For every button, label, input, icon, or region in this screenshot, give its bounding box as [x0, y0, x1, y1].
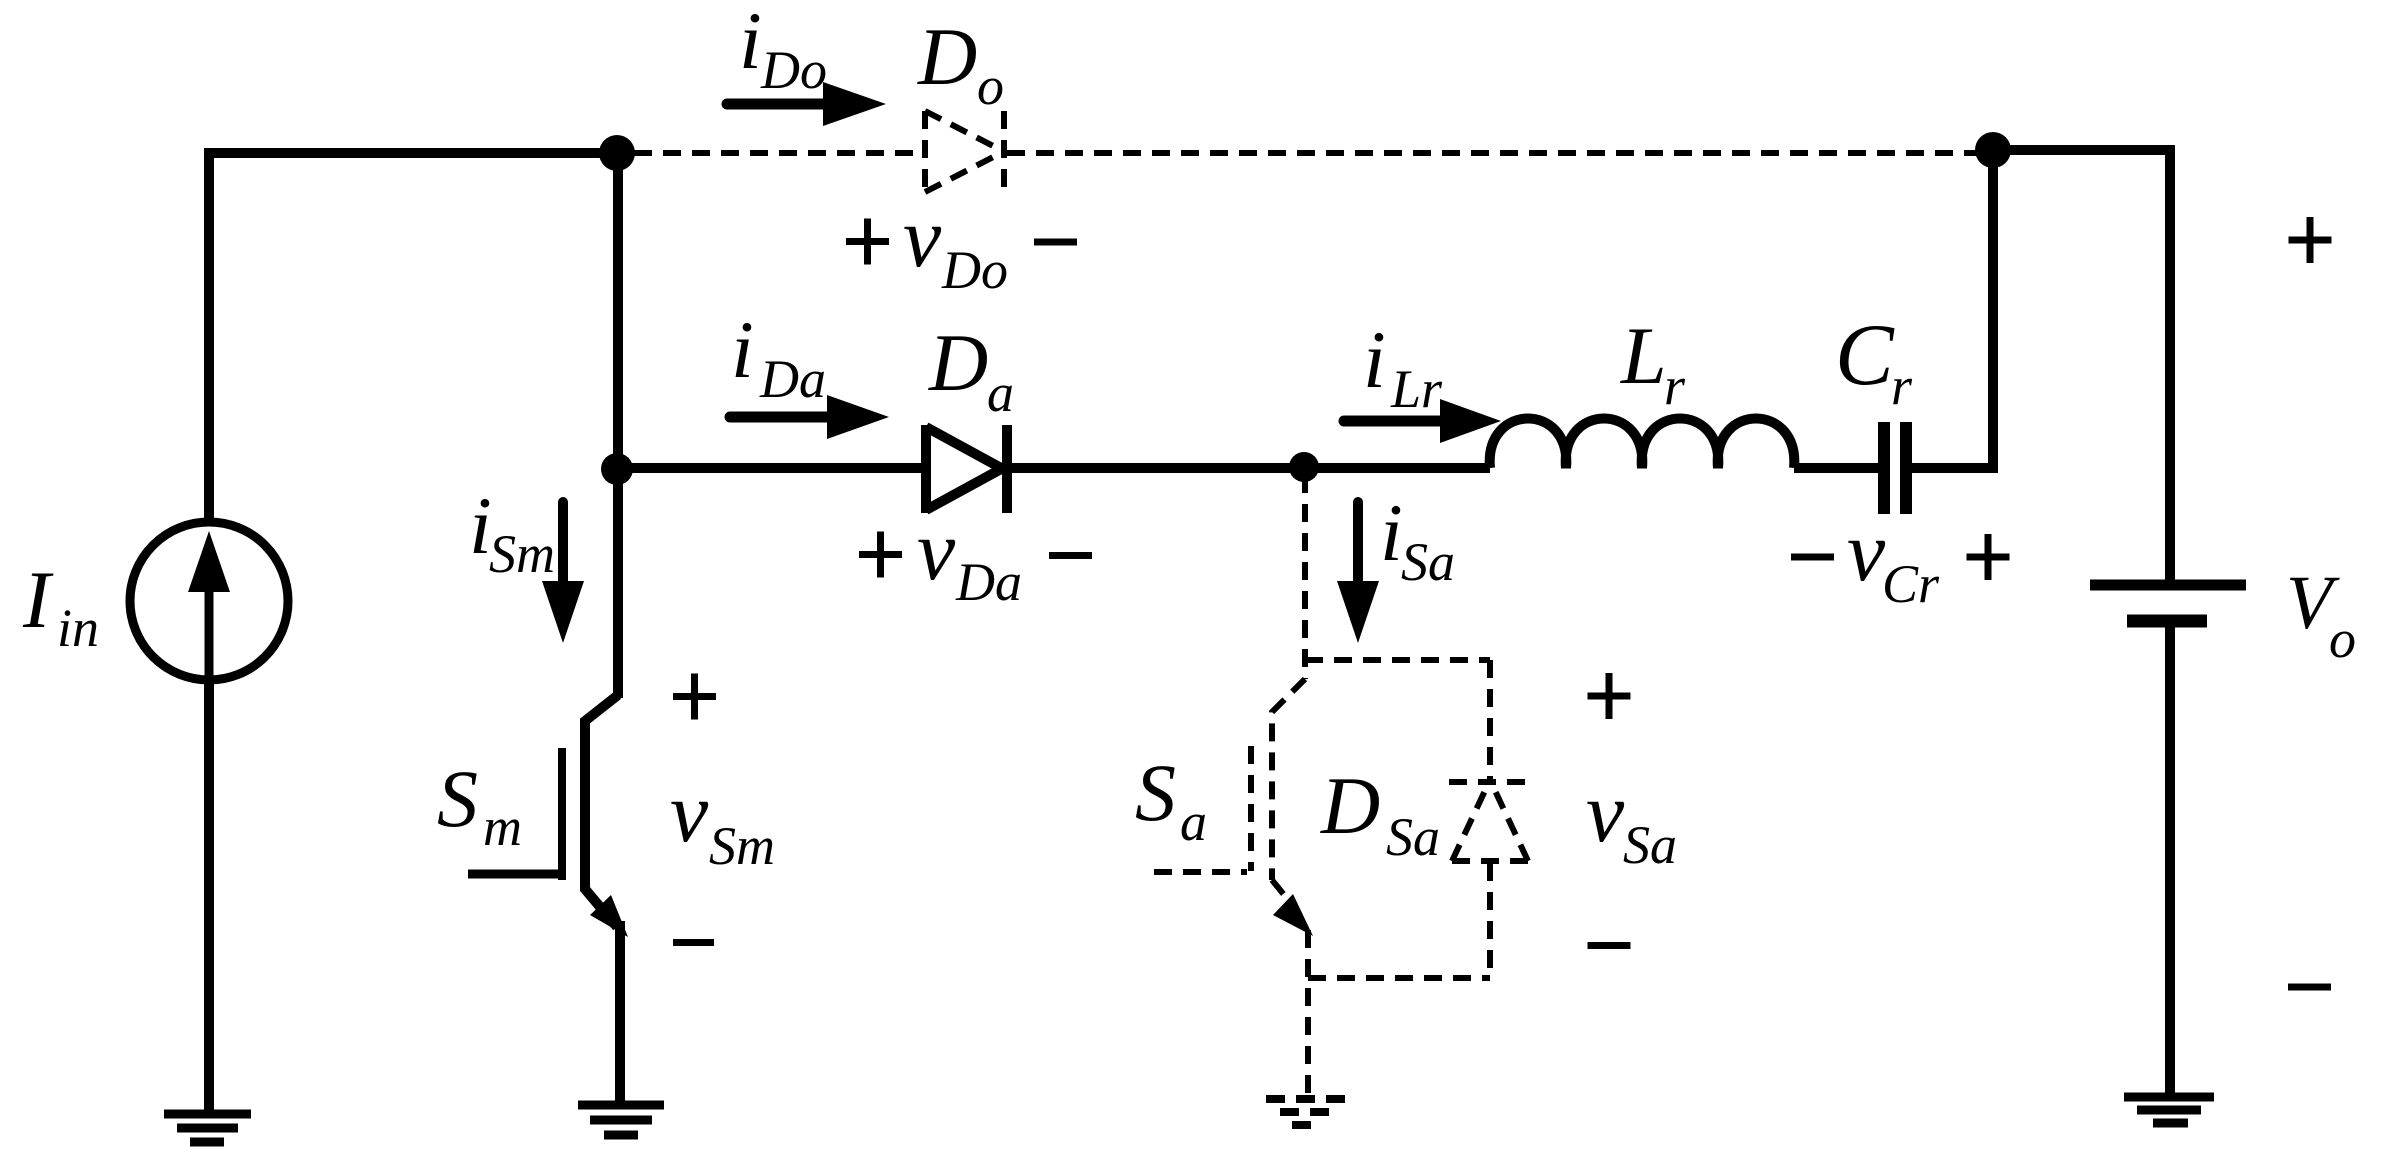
ground (left, under Iin)	[164, 1114, 251, 1142]
svg-text:o: o	[977, 56, 1004, 116]
node D (junction dot)	[1289, 452, 1319, 482]
wire main mid rail to Da anode	[618, 463, 922, 473]
svg-text:C: C	[1835, 307, 1895, 404]
svg-text:m: m	[483, 797, 522, 857]
plus vSa	[1588, 673, 1631, 719]
svg-text:Cr: Cr	[1882, 554, 1940, 614]
svg-text:Do: Do	[941, 240, 1008, 300]
wire Sa top edge (dashed loop)	[1305, 657, 1490, 663]
svg-text:D: D	[917, 11, 977, 102]
svg-text:S: S	[1135, 747, 1176, 838]
plus vDa	[859, 532, 902, 578]
wire top dashed rail (node A to Do anode)	[634, 150, 922, 156]
svg-text:v: v	[917, 502, 956, 598]
minus vDo	[1034, 239, 1077, 246]
diode Do (dashed)	[925, 111, 1004, 192]
current arrow iDa	[730, 395, 889, 439]
wire battery to ground	[2165, 621, 2175, 1097]
minus Vo	[2288, 984, 2331, 991]
plus vDo	[846, 219, 889, 265]
svg-text:o: o	[2329, 609, 2356, 669]
wire top dashed rail (Do cathode to node C)	[1007, 150, 1977, 156]
svg-text:Lr: Lr	[1390, 359, 1443, 419]
svg-text:v: v	[670, 764, 709, 860]
wire Sa source down (dashed)	[1305, 930, 1311, 1098]
minus vCr	[1791, 554, 1834, 561]
svg-text:Da: Da	[759, 349, 826, 409]
svg-text:I: I	[22, 554, 54, 645]
plus vSm	[673, 674, 716, 720]
node A (junction dot top)	[599, 135, 635, 171]
svg-text:Sa: Sa	[1401, 532, 1455, 592]
wire Lr to Cr	[1794, 463, 1878, 473]
wire left rail lower (source to ground)	[204, 683, 214, 1114]
minus vSm	[673, 939, 714, 946]
minus vSa	[1588, 942, 1631, 949]
current arrow iSm	[542, 502, 584, 643]
ground (right, under Vo)	[2124, 1097, 2214, 1123]
inductor Lr	[1490, 419, 1795, 469]
wire Sa right edge lower (dashed)	[1487, 863, 1493, 978]
ground (dashed, under Sa)	[1266, 1099, 1347, 1125]
svg-text:Sm: Sm	[709, 816, 775, 876]
plus Vo	[2289, 217, 2332, 263]
svg-text:a: a	[1180, 792, 1207, 852]
diode DSa (dashed body diode)	[1449, 780, 1531, 861]
wire Da cathode to node D	[1011, 463, 1490, 473]
plus vCr	[1967, 534, 2010, 580]
svg-text:D: D	[1320, 760, 1380, 851]
svg-text:Sa: Sa	[1623, 815, 1677, 875]
svg-text:a: a	[987, 363, 1014, 423]
svg-text:in: in	[57, 598, 99, 658]
arrowhead Sa	[1273, 894, 1313, 936]
wire node C to battery top	[1993, 150, 2170, 585]
wire Cr right to node C vertical	[1912, 155, 1993, 468]
current arrow iLr	[1344, 399, 1501, 443]
svg-text:r: r	[1891, 356, 1913, 416]
svg-text:v: v	[1586, 764, 1625, 860]
wire Sm source to ground	[615, 921, 625, 1103]
battery Vo	[2090, 585, 2246, 621]
svg-text:Do: Do	[760, 40, 827, 100]
svg-text:i: i	[1380, 487, 1403, 578]
current arrow iDo	[727, 82, 886, 126]
svg-text:i: i	[1363, 314, 1386, 405]
svg-text:Sm: Sm	[489, 524, 555, 584]
svg-text:D: D	[928, 317, 988, 408]
svg-text:v: v	[1847, 503, 1886, 599]
svg-text:Da: Da	[955, 552, 1022, 612]
ground (under Sm)	[578, 1105, 664, 1135]
transistor Sm (main switch)	[468, 695, 628, 937]
current source Iin	[130, 522, 288, 680]
svg-text:Sa: Sa	[1386, 807, 1440, 867]
svg-text:i: i	[731, 304, 754, 395]
node C (junction dot top right)	[1975, 132, 2011, 168]
diode Da	[926, 425, 1007, 513]
wire Sa bottom edge (dashed loop)	[1308, 975, 1490, 981]
wire Sa right edge upper (dashed)	[1487, 660, 1493, 782]
svg-text:v: v	[903, 189, 942, 285]
wire top-left: left rail up + top rail to node A	[209, 153, 617, 523]
transistor Sa (auxiliary switch, dashed)	[1154, 475, 1305, 912]
svg-text:S: S	[437, 753, 478, 844]
node B (junction dot mid)	[601, 453, 633, 485]
svg-text:L: L	[1620, 310, 1667, 401]
capacitor Cr	[1884, 422, 1906, 514]
wire middle rail (node A down to Sm drain)	[613, 153, 623, 698]
minus vDa	[1049, 552, 1092, 559]
current arrow iSa	[1337, 502, 1379, 643]
svg-text:i: i	[739, 0, 762, 86]
svg-text:r: r	[1664, 356, 1686, 416]
